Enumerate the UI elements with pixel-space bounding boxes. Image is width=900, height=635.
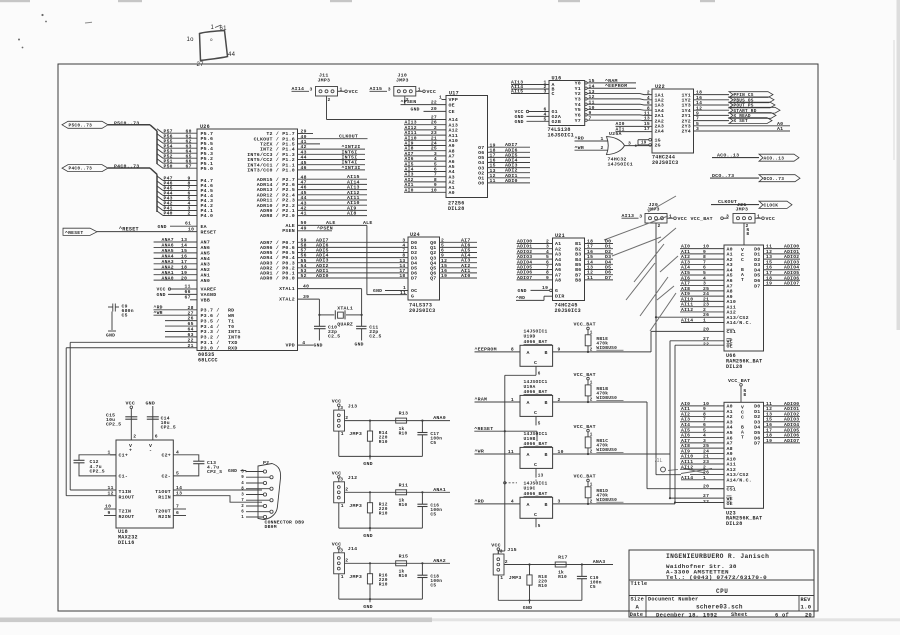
svg-text:68LCCC: 68LCCC bbox=[198, 358, 218, 364]
wire U23 OE bbox=[675, 502, 724, 504]
svg-text:INT6/CC3 / P1.3: INT6/CC3 / P1.3 bbox=[247, 152, 295, 158]
svg-text:AI11: AI11 bbox=[681, 302, 693, 308]
svg-text:AI1: AI1 bbox=[405, 182, 414, 188]
svg-text:B5: B5 bbox=[575, 262, 581, 268]
bus flag ACO..13 bbox=[759, 154, 799, 161]
wire bus P4 to U26 bbox=[108, 167, 150, 169]
svg-text:T1OUT: T1OUT bbox=[155, 489, 171, 495]
svg-text:D7: D7 bbox=[754, 283, 760, 289]
svg-text:1Y2: 1Y2 bbox=[681, 98, 691, 104]
svg-text:AI7: AI7 bbox=[681, 438, 690, 444]
svg-text:QUARZ: QUARZ bbox=[337, 321, 353, 327]
hand-drawn pencil box with pin numbers bbox=[200, 31, 228, 61]
svg-text:ANA0: ANA0 bbox=[433, 415, 446, 421]
svg-text:-: - bbox=[149, 449, 152, 454]
wire EEPROM switch to U66 CS1 bbox=[650, 331, 652, 352]
flag PBUS OS bbox=[729, 97, 774, 103]
svg-text:61: 61 bbox=[185, 221, 191, 227]
svg-text:A14: A14 bbox=[449, 117, 459, 123]
svg-text:AI2: AI2 bbox=[681, 254, 690, 260]
svg-text:INT4/CC1 / P1.1: INT4/CC1 / P1.1 bbox=[247, 162, 295, 168]
svg-text:CP2_5: CP2_5 bbox=[106, 422, 121, 428]
op IC U21 74HC245 transceiver body bbox=[553, 238, 585, 301]
svg-text:2: 2 bbox=[590, 347, 593, 352]
svg-text:AN1: AN1 bbox=[201, 272, 211, 278]
svg-text:Y6: Y6 bbox=[575, 112, 581, 118]
svg-text:ADIO1: ADIO1 bbox=[784, 249, 799, 255]
svg-text:ADI5: ADI5 bbox=[316, 248, 329, 254]
U66 address pins A0..A14 bbox=[680, 248, 724, 250]
svg-text:ADR5 / P0.5: ADR5 / P0.5 bbox=[260, 250, 295, 256]
svg-text:9: 9 bbox=[108, 510, 111, 516]
svg-text:B: B bbox=[545, 502, 548, 508]
wire U23 CS1 from ^RAM switch bbox=[647, 488, 724, 490]
svg-text:CLKOUT: CLKOUT bbox=[339, 134, 358, 140]
svg-text:VCC: VCC bbox=[157, 287, 166, 293]
svg-text:ADI0: ADI0 bbox=[316, 273, 329, 279]
flag ^RESET bbox=[63, 228, 97, 235]
svg-text:R2OUT: R2OUT bbox=[119, 514, 135, 520]
svg-text:GND: GND bbox=[363, 604, 373, 610]
svg-text:A8: A8 bbox=[727, 289, 733, 295]
U23 A13 A14 stubs bbox=[690, 474, 724, 476]
svg-text:B8: B8 bbox=[575, 278, 581, 284]
svg-text:A: A bbox=[527, 502, 530, 508]
svg-text:C2_5: C2_5 bbox=[369, 334, 381, 340]
svg-text:19: 19 bbox=[542, 285, 548, 291]
svg-text:23: 23 bbox=[703, 302, 709, 308]
svg-text:25: 25 bbox=[431, 146, 437, 152]
svg-text:2: 2 bbox=[590, 397, 593, 402]
svg-text:21: 21 bbox=[703, 296, 709, 302]
svg-text:20: 20 bbox=[431, 106, 437, 112]
svg-text:AI5: AI5 bbox=[681, 427, 690, 433]
svg-text:8: 8 bbox=[511, 347, 514, 353]
svg-text:AI7: AI7 bbox=[405, 151, 414, 157]
svg-text:A13: A13 bbox=[449, 122, 459, 128]
svg-text:D3: D3 bbox=[754, 419, 760, 425]
svg-text:^PSEN: ^PSEN bbox=[317, 226, 333, 232]
svg-text:D5: D5 bbox=[754, 430, 760, 436]
svg-text:Q1: Q1 bbox=[430, 245, 436, 251]
svg-text:VCC: VCC bbox=[678, 216, 688, 222]
svg-text:A8: A8 bbox=[449, 148, 455, 154]
svg-text:INT0: INT0 bbox=[228, 335, 241, 341]
svg-text:9: 9 bbox=[703, 249, 706, 255]
svg-text:B7: B7 bbox=[575, 272, 581, 278]
svg-text:R1IN: R1IN bbox=[158, 495, 171, 501]
svg-text:ADIO7: ADIO7 bbox=[784, 438, 799, 444]
svg-text:A10: A10 bbox=[727, 299, 737, 305]
svg-text:A4: A4 bbox=[555, 257, 561, 263]
svg-text:T1IN: T1IN bbox=[119, 489, 132, 495]
svg-text:19: 19 bbox=[641, 142, 647, 146]
bus flag DCO..73 bbox=[759, 175, 800, 182]
svg-text:T2OUT: T2OUT bbox=[155, 508, 171, 514]
svg-text:11: 11 bbox=[508, 449, 514, 455]
svg-text:R10: R10 bbox=[379, 439, 388, 445]
svg-text:U19B: U19B bbox=[524, 436, 536, 442]
svg-text:AI12: AI12 bbox=[681, 464, 693, 470]
svg-text:A11: A11 bbox=[449, 133, 459, 139]
svg-text:67: 67 bbox=[185, 294, 191, 300]
svg-text:9: 9 bbox=[434, 182, 437, 188]
wire WR switch vertical bbox=[669, 341, 671, 498]
svg-text:1Y3: 1Y3 bbox=[681, 103, 691, 109]
svg-text:JMP3: JMP3 bbox=[736, 207, 749, 213]
svg-text:ADIO0: ADIO0 bbox=[784, 244, 799, 250]
svg-text:24: 24 bbox=[703, 291, 709, 297]
svg-text:O0: O0 bbox=[478, 181, 484, 187]
svg-text:OE: OE bbox=[727, 501, 733, 507]
svg-text:CP2_5: CP2_5 bbox=[161, 425, 176, 431]
U17 address pins A13..A0 bbox=[404, 124, 446, 126]
svg-text:ADIO4: ADIO4 bbox=[784, 422, 799, 428]
svg-text:AI0: AI0 bbox=[681, 401, 690, 407]
svg-text:6: 6 bbox=[176, 510, 179, 516]
svg-text:AI11: AI11 bbox=[405, 130, 417, 136]
svg-text:AI2: AI2 bbox=[405, 177, 414, 183]
svg-text:GND: GND bbox=[106, 333, 115, 339]
svg-text:2A2: 2A2 bbox=[655, 118, 665, 124]
svg-text:3: 3 bbox=[434, 151, 437, 157]
svg-text:A14/N.C.: A14/N.C. bbox=[727, 478, 752, 484]
svg-text:D6: D6 bbox=[411, 271, 417, 277]
svg-text:13: 13 bbox=[644, 116, 650, 122]
wire J12 ground return bbox=[338, 503, 340, 528]
svg-text:C: C bbox=[552, 91, 555, 97]
svg-text:D1: D1 bbox=[754, 409, 760, 415]
svg-text:C: C bbox=[741, 414, 744, 420]
svg-text:GND: GND bbox=[518, 288, 527, 294]
svg-text:5: 5 bbox=[544, 116, 547, 122]
svg-text:1A1: 1A1 bbox=[655, 92, 665, 98]
svg-text:VCC: VCC bbox=[332, 541, 342, 547]
pencil hatch strokes bbox=[604, 216, 668, 240]
svg-text:P3.7 /: P3.7 / bbox=[201, 308, 220, 314]
svg-text:R10: R10 bbox=[399, 430, 408, 436]
svg-text:19: 19 bbox=[181, 270, 187, 276]
svg-text:27: 27 bbox=[197, 62, 205, 68]
svg-text:D4: D4 bbox=[754, 425, 760, 431]
svg-text:DIL28: DIL28 bbox=[726, 521, 743, 527]
svg-text:ALE: ALE bbox=[326, 220, 336, 226]
wire U19A C control pin bbox=[535, 416, 537, 425]
svg-text:AI3: AI3 bbox=[681, 259, 690, 265]
svg-text:VCC: VCC bbox=[126, 401, 136, 407]
svg-text:DB9M: DB9M bbox=[265, 524, 277, 530]
svg-text:VCC_BAT: VCC_BAT bbox=[574, 322, 596, 328]
svg-text:AI3: AI3 bbox=[461, 258, 471, 264]
svg-text:ANA1: ANA1 bbox=[433, 487, 446, 493]
svg-text:VCC: VCC bbox=[349, 89, 359, 95]
svg-text:Y5: Y5 bbox=[575, 107, 581, 113]
svg-text:O1: O1 bbox=[478, 176, 484, 182]
svg-text:2: 2 bbox=[328, 97, 331, 103]
svg-text:Y2: Y2 bbox=[575, 91, 581, 97]
wire U23 WE bbox=[670, 497, 724, 499]
svg-text:Y3: Y3 bbox=[575, 96, 581, 102]
svg-text:AI11: AI11 bbox=[347, 195, 360, 201]
svg-text:J13: J13 bbox=[348, 403, 358, 409]
wire stubs P3.5-P3.2 bbox=[165, 320, 197, 322]
svg-text:AI9: AI9 bbox=[347, 205, 357, 211]
op IC U26 80535 68LCCC body bbox=[197, 129, 298, 351]
svg-text:14: 14 bbox=[399, 263, 405, 269]
svg-text:D2: D2 bbox=[754, 257, 760, 263]
svg-text:A: A bbox=[527, 452, 530, 458]
svg-text:1.0: 1.0 bbox=[801, 603, 812, 610]
U26 P5 pin stubs with diagonals bbox=[157, 129, 163, 134]
dashed no-connect marks bbox=[535, 469, 537, 483]
svg-text:CLOCK: CLOCK bbox=[764, 202, 779, 208]
svg-text:14: 14 bbox=[181, 243, 187, 249]
svg-text:1A4: 1A4 bbox=[655, 108, 665, 114]
svg-text:ADI4: ADI4 bbox=[316, 253, 329, 259]
svg-text:A0: A0 bbox=[727, 404, 733, 410]
svg-text:13: 13 bbox=[181, 237, 187, 243]
svg-text:J12: J12 bbox=[348, 475, 358, 481]
svg-text:C2_5: C2_5 bbox=[328, 334, 340, 340]
svg-text:10: 10 bbox=[703, 244, 709, 250]
svg-text:1A2: 1A2 bbox=[655, 98, 665, 104]
wire U66 OE from 4066 bbox=[675, 344, 724, 346]
svg-text:5: 5 bbox=[546, 254, 549, 260]
svg-text:7: 7 bbox=[546, 265, 549, 271]
flag READ bbox=[729, 113, 776, 119]
svg-text:ADI5: ADI5 bbox=[505, 152, 518, 158]
svg-text:D1: D1 bbox=[411, 245, 417, 251]
svg-text:4: 4 bbox=[703, 433, 706, 439]
svg-text:8: 8 bbox=[402, 253, 405, 259]
svg-text:INT5/CC2 / P1.2: INT5/CC2 / P1.2 bbox=[247, 157, 295, 163]
svg-text:11: 11 bbox=[644, 111, 650, 117]
title block frame bbox=[629, 550, 814, 617]
svg-text:VCC_BAT: VCC_BAT bbox=[728, 378, 750, 384]
svg-text:GND: GND bbox=[515, 119, 524, 125]
wire gnd into DB9 bbox=[245, 471, 247, 472]
svg-text:4: 4 bbox=[241, 482, 244, 486]
svg-text:A4: A4 bbox=[449, 169, 455, 175]
bus flag CLOCK bbox=[759, 201, 792, 208]
svg-text:P5C0..73: P5C0..73 bbox=[69, 122, 93, 128]
svg-text:7: 7 bbox=[434, 172, 437, 178]
svg-text:AI6: AI6 bbox=[681, 433, 690, 439]
svg-text:B6: B6 bbox=[575, 267, 581, 273]
svg-text:Q4: Q4 bbox=[430, 260, 436, 266]
op IC U24 74LS373 latch body bbox=[408, 237, 440, 300]
svg-text:2: 2 bbox=[590, 449, 593, 454]
svg-text:VCC_BAT: VCC_BAT bbox=[574, 424, 596, 430]
svg-text:A2: A2 bbox=[727, 257, 733, 263]
svg-text:A: A bbox=[636, 603, 640, 610]
svg-text:D1: D1 bbox=[605, 244, 611, 250]
svg-text:R17: R17 bbox=[558, 555, 568, 561]
svg-text:ACO..13: ACO..13 bbox=[764, 155, 785, 161]
svg-text:AI8: AI8 bbox=[681, 443, 690, 449]
svg-text:D6: D6 bbox=[605, 270, 611, 276]
svg-text:A1: A1 bbox=[777, 126, 783, 132]
op IC U66 RAM256K_BAT body bbox=[724, 245, 764, 351]
svg-text:GND: GND bbox=[363, 461, 373, 467]
svg-text:Q3: Q3 bbox=[430, 255, 436, 261]
scan top edge smudges bbox=[0, 0, 30, 2]
svg-text:AI3: AI3 bbox=[681, 417, 690, 423]
svg-text:2: 2 bbox=[546, 239, 549, 245]
wire J14 output row bbox=[345, 562, 451, 564]
svg-text:GND: GND bbox=[363, 533, 373, 539]
svg-text:DIL28: DIL28 bbox=[448, 206, 465, 212]
wires Y2..Y7 to U22 bbox=[587, 94, 652, 95]
svg-text:2: 2 bbox=[658, 223, 661, 229]
svg-text:A6: A6 bbox=[727, 278, 733, 284]
wire J13 ground return bbox=[338, 431, 340, 456]
wire J15 ground return bbox=[497, 575, 499, 600]
svg-text:GND: GND bbox=[411, 106, 420, 112]
svg-text:A5: A5 bbox=[727, 273, 733, 279]
svg-text:4: 4 bbox=[511, 499, 514, 505]
svg-text:AI0: AI0 bbox=[461, 273, 471, 279]
svg-text:5: 5 bbox=[241, 471, 244, 475]
svg-text:ADIO2: ADIO2 bbox=[784, 254, 799, 260]
svg-text:6: 6 bbox=[703, 422, 706, 428]
svg-text:6: 6 bbox=[155, 434, 158, 440]
svg-text:JMP3: JMP3 bbox=[349, 574, 362, 580]
svg-text:AI1: AI1 bbox=[681, 406, 690, 412]
svg-text:JMP3: JMP3 bbox=[509, 575, 522, 581]
svg-text:Tel.: (0043) 07472/63170-0: Tel.: (0043) 07472/63170-0 bbox=[666, 574, 767, 581]
svg-text:D4: D4 bbox=[605, 259, 611, 265]
svg-text:XTAL1: XTAL1 bbox=[337, 305, 353, 311]
svg-text:21: 21 bbox=[431, 135, 437, 141]
svg-text:ANA1: ANA1 bbox=[162, 270, 174, 276]
svg-text:D3: D3 bbox=[411, 255, 417, 261]
svg-text:5: 5 bbox=[538, 422, 541, 427]
svg-text:D7: D7 bbox=[754, 441, 760, 447]
svg-text:JMP3: JMP3 bbox=[396, 77, 409, 83]
svg-text:C: C bbox=[534, 360, 537, 366]
svg-text:AI7: AI7 bbox=[681, 281, 690, 287]
svg-text:+: + bbox=[129, 449, 132, 454]
net label A0 from U22 bbox=[694, 125, 791, 127]
svg-text:C: C bbox=[741, 257, 744, 263]
flag POUT PS bbox=[729, 102, 775, 108]
net ^RAM from Y0 bbox=[587, 82, 636, 84]
svg-text:GND: GND bbox=[157, 292, 166, 298]
svg-text:18: 18 bbox=[399, 273, 405, 279]
svg-text:2: 2 bbox=[703, 464, 706, 470]
svg-text:D7: D7 bbox=[605, 275, 611, 281]
svg-text:R2IN: R2IN bbox=[158, 514, 171, 520]
wire RXD long run to MAX232 bbox=[66, 347, 197, 349]
svg-text:3: 3 bbox=[402, 237, 405, 243]
svg-text:AI13: AI13 bbox=[405, 120, 417, 126]
svg-text:P3.4 /: P3.4 / bbox=[201, 324, 220, 330]
svg-text:J14: J14 bbox=[348, 546, 358, 552]
svg-text:VAREF: VAREF bbox=[201, 287, 217, 293]
svg-text:U19A: U19A bbox=[524, 384, 536, 390]
svg-text:AI5: AI5 bbox=[405, 161, 414, 167]
wire control net vertical bbox=[505, 374, 536, 376]
svg-text:1: 1 bbox=[211, 25, 215, 31]
svg-text:2: 2 bbox=[188, 211, 191, 217]
svg-text:O2: O2 bbox=[478, 170, 484, 176]
svg-text:8: 8 bbox=[241, 488, 244, 492]
svg-text:AI15: AI15 bbox=[347, 174, 360, 180]
svg-text:22: 22 bbox=[431, 99, 437, 105]
svg-text:21: 21 bbox=[703, 454, 709, 460]
svg-text:A10: A10 bbox=[449, 138, 459, 144]
svg-text:Q7: Q7 bbox=[430, 276, 436, 282]
svg-text:AI9: AI9 bbox=[681, 291, 690, 297]
svg-text:O6: O6 bbox=[478, 150, 484, 156]
svg-text:ADR7 / P0.7: ADR7 / P0.7 bbox=[260, 240, 295, 246]
svg-text:R10: R10 bbox=[558, 574, 567, 580]
wire RAM switch to U23 CS1 bbox=[646, 402, 648, 489]
svg-text:66: 66 bbox=[185, 289, 191, 295]
svg-text:R10: R10 bbox=[379, 582, 388, 588]
svg-text:3: 3 bbox=[340, 405, 343, 411]
wire J12 output row bbox=[345, 491, 451, 493]
svg-text:D3: D3 bbox=[605, 254, 611, 260]
svg-text:22: 22 bbox=[703, 342, 709, 348]
svg-text:^RESET: ^RESET bbox=[65, 230, 83, 236]
svg-text:A9: A9 bbox=[727, 451, 733, 457]
svg-text:A1: A1 bbox=[727, 409, 733, 415]
svg-text:ADIO7: ADIO7 bbox=[784, 281, 799, 287]
svg-text:VPD: VPD bbox=[285, 343, 295, 349]
op IC U22 74HC244 buffer body bbox=[652, 89, 694, 153]
svg-text:6 of: 6 of bbox=[775, 613, 789, 619]
svg-text:Q0: Q0 bbox=[430, 240, 436, 246]
svg-text:ADI6: ADI6 bbox=[316, 242, 329, 248]
svg-text:C5: C5 bbox=[590, 584, 596, 590]
svg-text:INT1: INT1 bbox=[228, 329, 241, 335]
svg-text:18: 18 bbox=[181, 264, 187, 270]
svg-text:20: 20 bbox=[805, 613, 812, 619]
svg-text:AI1: AI1 bbox=[681, 249, 690, 255]
svg-text:A8: A8 bbox=[727, 446, 733, 452]
svg-text:Y4: Y4 bbox=[575, 102, 581, 108]
svg-text:D0: D0 bbox=[605, 239, 611, 245]
svg-text:REV: REV bbox=[801, 597, 812, 603]
svg-text:B1: B1 bbox=[575, 241, 581, 247]
flag PFIN CS bbox=[729, 92, 773, 98]
svg-text:10: 10 bbox=[188, 226, 194, 232]
svg-text:A0: A0 bbox=[727, 246, 733, 252]
svg-text:4: 4 bbox=[546, 249, 549, 255]
svg-text:Q2: Q2 bbox=[430, 250, 436, 256]
svg-text:A3: A3 bbox=[449, 174, 455, 180]
svg-text:GND: GND bbox=[355, 341, 364, 347]
pencil dots top left bbox=[41, 14, 43, 16]
svg-text:^INT3I: ^INT3I bbox=[342, 165, 361, 171]
wire U19C C control pin bbox=[535, 518, 537, 527]
svg-text:ADR9 / P2.1: ADR9 / P2.1 bbox=[260, 208, 295, 214]
svg-text:A4: A4 bbox=[727, 425, 733, 431]
svg-text:2: 2 bbox=[345, 415, 348, 421]
svg-text:T2IN: T2IN bbox=[119, 508, 132, 514]
svg-text:ADI7: ADI7 bbox=[505, 142, 518, 148]
pencil dash bbox=[85, 21, 92, 24]
wire RD switch vertical bbox=[674, 345, 676, 502]
svg-text:13: 13 bbox=[399, 258, 405, 264]
svg-text:VPP: VPP bbox=[449, 97, 459, 103]
svg-text:2: 2 bbox=[345, 558, 348, 564]
svg-text:1: 1 bbox=[341, 431, 344, 437]
svg-text:3: 3 bbox=[340, 548, 343, 554]
svg-text:3: 3 bbox=[340, 477, 343, 483]
